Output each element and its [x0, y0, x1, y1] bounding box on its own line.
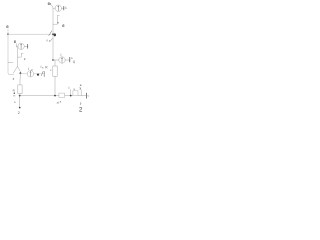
bottom-left terminal dot: [19, 107, 21, 109]
wire corner into source I2: [16, 44, 18, 47]
terminal bar right end: [85, 93, 87, 98]
terminal bar right of I2: [27, 44, 29, 48]
resistor R3 (box on rail): [73, 91, 78, 96]
terminal bar right of I1: [63, 6, 65, 10]
input terminal corner dot: [7, 33, 9, 35]
probe element (small hook): [57, 15, 59, 19]
wire vertical main (collector branch, x=53): [52, 8, 54, 60]
arrowhead on input wire: [49, 31, 52, 36]
bottom rail left segment: [20, 95, 59, 97]
up stub at x=70.7: [70, 89, 72, 95]
current source I3 circle: [27, 71, 33, 77]
up stub right corner: [80, 90, 82, 96]
svg-text:э: э: [79, 86, 81, 90]
dark mark under wire: [37, 74, 39, 76]
transistor split left diagonal: [13, 66, 17, 73]
wire from emitter dot down to resistor R4: [19, 74, 21, 85]
dark mark left of R4: [14, 93, 15, 94]
svg-text:2: 2: [18, 111, 20, 115]
resistor R1 (box): [53, 66, 57, 76]
current arrow slash on wire: [41, 71, 43, 76]
input terminal stub: [7, 29, 9, 34]
junction dot base node: [52, 33, 54, 35]
wire into resistor R1: [53, 60, 55, 66]
branch at y=60 left: [17, 53, 23, 57]
junction dot rail left: [19, 95, 21, 97]
emitter junction dot: [20, 72, 22, 74]
bottom rail right segment: [78, 95, 86, 97]
wire right of I2: [24, 45, 27, 47]
current source I2 circle: [18, 43, 24, 49]
current source I1 circle: [55, 5, 61, 11]
rail to current source I3: [20, 73, 27, 75]
terminal bar right of I4: [69, 57, 71, 62]
junction dot at stub: [70, 95, 72, 97]
wire left vertical (x=8): [8, 34, 14, 74]
wire input horizontal: [8, 33, 51, 35]
resistor R2 (box on rail): [59, 93, 65, 97]
resistor R4 (box): [18, 85, 22, 94]
current source I1 arrow: [58, 6, 59, 11]
current source I2 arrow: [21, 44, 22, 49]
wire vertical left branch: [16, 46, 17, 66]
junction dot R1/rail: [54, 95, 56, 97]
junction dot collector node: [52, 59, 54, 61]
wire right of I4: [65, 59, 69, 61]
svg-text:э): э): [57, 100, 60, 104]
current source I4 circle: [59, 57, 65, 63]
svg-text:ц: ц: [73, 60, 75, 64]
wire corner from node B1 to current source I1: [51, 5, 55, 8]
current source I3 arrow: [30, 72, 31, 77]
branch stub on left vertical: [8, 62, 13, 64]
wire from I1 to right terminal: [62, 7, 64, 9]
wire from R1 to bottom rail: [54, 76, 56, 95]
branch wire to probe element: [53, 20, 57, 25]
transistor split right diagonal: [17, 66, 20, 74]
wire from collector node to I4: [53, 59, 59, 61]
wire bottom-left vertical: [19, 96, 21, 108]
wire right of I3: [34, 73, 44, 75]
bottom rail mid segment: [65, 95, 73, 97]
small tick left of rail start: [13, 95, 15, 97]
wire R4 to rail: [19, 94, 21, 96]
current source I4 arrow: [61, 58, 62, 63]
